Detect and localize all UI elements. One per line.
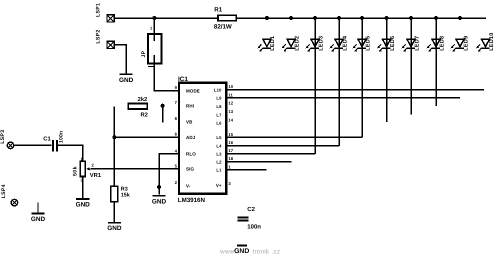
LED D7 : LED7 [402,18,421,115]
svg-text:VB: VB [186,119,193,124]
svg-text:GND: GND [234,248,249,255]
svg-text:LSP4: LSP4 [1,184,7,198]
wire [226,161,291,163]
wire [58,145,82,160]
capacitor C2 [237,206,261,231]
svg-text:2k2: 2k2 [138,96,148,103]
LED D9 : LED9 [451,36,470,52]
resistor R3 [111,186,130,202]
svg-text:.cz: .cz [272,248,281,255]
wire [226,169,267,171]
svg-text:82/1W: 82/1W [214,23,232,30]
svg-text:18: 18 [228,156,233,161]
svg-text:17: 17 [228,148,233,153]
svg-text:16: 16 [228,140,233,145]
svg-text:LED5: LED5 [365,36,371,51]
ground [120,73,133,75]
svg-text:LED7: LED7 [414,36,420,51]
LED D2 : LED2 [282,36,301,52]
svg-text:LSP1: LSP1 [96,3,102,17]
node LSP3 [7,142,14,149]
svg-text:GND: GND [152,198,167,205]
svg-text:11: 11 [228,92,233,97]
svg-text:JP: JP [141,50,147,57]
svg-text:14: 14 [228,117,233,122]
svg-text:10: 10 [228,84,233,89]
ground [108,222,121,224]
svg-text:L10: L10 [214,88,222,93]
svg-text:www: www [219,248,235,255]
node LSP4 [11,199,18,206]
svg-text:LED6: LED6 [390,36,396,51]
wire [153,18,155,33]
LED D6 : LED6 [377,18,396,122]
LED D4 : LED4 [330,18,349,146]
wire [226,153,315,155]
svg-text:MODE: MODE [186,88,200,93]
svg-text:RLO: RLO [186,152,196,157]
junction with stub (REFADJ net) [161,104,165,108]
svg-text:GND: GND [76,202,91,209]
svg-text:L1: L1 [216,168,222,173]
svg-text:tronik: tronik [253,248,270,255]
svg-text:RHI: RHI [186,104,194,109]
svg-text:R2: R2 [141,112,148,119]
svg-text:100n: 100n [58,131,64,143]
svg-text:15k: 15k [121,192,130,198]
svg-text:LED3: LED3 [318,36,324,51]
svg-text:L7: L7 [216,112,222,117]
svg-text:GND: GND [107,225,122,232]
svg-text:12: 12 [228,101,233,106]
svg-text:L3: L3 [216,152,222,157]
ground (bottom) [237,244,247,246]
wire [236,17,486,19]
LED D10 : LED10 [476,32,495,51]
junction [360,16,364,20]
ground (floating, lost wire) [37,203,39,214]
wire [226,89,484,91]
svg-text:L5: L5 [216,135,222,140]
wire [226,136,362,138]
junction [112,135,116,139]
svg-text:LED2: LED2 [294,36,300,51]
wire [114,17,218,19]
LED D3 : LED3 [306,18,325,154]
wire RLO [159,154,179,195]
junction [152,16,156,20]
wire [114,45,126,74]
capacitor C1 [43,131,64,152]
junction [337,16,341,20]
svg-text:LSP3: LSP3 [0,130,6,144]
resistor R1 [218,15,236,20]
svg-text:LED1: LED1 [270,36,276,51]
junction [313,16,317,20]
svg-text:LED8: LED8 [439,36,445,51]
svg-text:IC1: IC1 [178,76,188,83]
svg-text:LED4: LED4 [342,35,348,51]
svg-text:C2: C2 [247,206,255,213]
junction [409,16,413,20]
junction [385,16,389,20]
wire [14,144,52,146]
wire ADJ to IC pin [114,136,179,138]
svg-text:LSP2: LSP2 [96,29,102,43]
junction [458,16,462,20]
jumper JP [148,34,162,63]
svg-text:L8: L8 [216,104,222,109]
svg-text:ADJ: ADJ [186,135,196,140]
wire [226,145,339,147]
svg-text:V-: V- [186,183,191,188]
wire [154,63,179,90]
svg-text:LM3916N: LM3916N [178,197,206,204]
svg-text:13: 13 [228,109,233,114]
svg-text:L2: L2 [216,160,222,165]
junction V- [157,185,161,189]
svg-text:L4: L4 [216,144,222,149]
svg-text:LED10: LED10 [489,32,495,50]
LED D5 : LED5 [353,18,372,137]
LED D1 : LED1 [258,36,277,52]
wire [82,177,84,199]
svg-text:R1: R1 [214,7,222,14]
svg-text:15: 15 [228,132,233,137]
node LSP2 [107,41,114,48]
wire ADJ vertical [113,107,115,187]
svg-text:GND: GND [31,216,46,223]
wire SIG to IC pin 5 [91,168,179,170]
svg-text:V+: V+ [216,183,222,188]
svg-text:VR1: VR1 [90,173,102,179]
junction [265,16,269,20]
junction [289,16,293,20]
svg-text:GND: GND [119,77,134,84]
svg-text:50k: 50k [73,166,79,176]
svg-text:SIG: SIG [186,167,194,172]
wire [113,202,115,222]
svg-text:100n: 100n [247,224,261,231]
svg-text:C1: C1 [43,136,51,143]
trimmer VR1 [73,156,102,182]
svg-text:L9: L9 [216,96,222,101]
node LSP1 [107,15,114,22]
ground [76,198,89,200]
resistor R2 [128,96,148,118]
wire [226,97,460,99]
junction [434,16,438,20]
ground [152,195,165,197]
op-amp U1 : IC1 LM3916N box [179,83,226,194]
LED D8 : LED8 [427,18,446,106]
svg-text:L6: L6 [216,121,222,126]
svg-text:LED9: LED9 [463,36,469,51]
